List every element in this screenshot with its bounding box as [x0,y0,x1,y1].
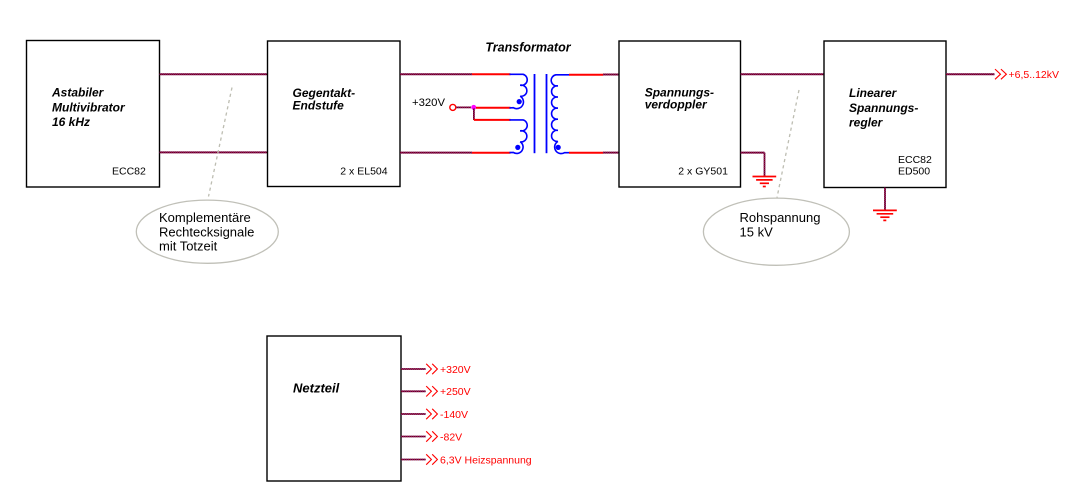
svg-text:Astabiler: Astabiler [51,86,105,100]
block U5: Netzteil [267,336,401,481]
wire: secondary top to verdoppler (dark) [603,74,619,76]
chevrons -140V [426,409,437,419]
svg-text:Komplementäre: Komplementäre [159,210,251,225]
svg-text:+320V: +320V [440,364,471,376]
chevrons -82V [426,431,437,441]
svg-text:Multivibrator: Multivibrator [52,101,126,115]
output arrow chevrons [995,69,1006,79]
svg-text:-140V: -140V [440,409,468,421]
wire: junction to bottom primary coil top (red) [474,119,511,121]
wire: netzteil output +320V [401,368,426,370]
svg-text:regler: regler [849,116,884,130]
ground symbol at verdoppler [753,177,777,187]
wire: junction to top primary coil bottom (red) [476,107,511,109]
wire: netzteil output -82V [401,436,426,438]
svg-text:2 x EL504: 2 x EL504 [340,166,387,178]
wire: endstufe to transformer primary top (dark) [400,73,472,75]
svg-text:ED500: ED500 [898,166,930,178]
transformer T1 primary winding upper (L1a) [510,74,528,108]
svg-text:6,3V Heizspannung: 6,3V Heizspannung [440,454,532,466]
wire: netzteil output +250V [401,390,426,392]
svg-text:16 kHz: 16 kHz [52,115,90,129]
wire: regler ground stem [884,188,886,211]
wire: verdoppler ground stub horizontal [741,152,765,154]
polarity dot L2 [556,145,561,150]
chevrons +320V [426,364,437,374]
svg-text:ECC82: ECC82 [112,166,146,178]
block U1: Astabiler Multivibrator 16 kHz [27,41,160,188]
block U3: Spannungsverdoppler [619,41,741,187]
svg-text:+320V: +320V [412,97,445,109]
terminal: +320V open circle [450,104,456,110]
svg-text:Rechtecksignale: Rechtecksignale [159,224,254,239]
wire: junction drop (dark) [473,108,475,120]
wire: endstufe to transformer primary bottom (dark) [400,152,472,154]
transformer T1 primary winding lower (L1b) [510,120,528,154]
ground symbol at regler [873,210,897,220]
block U2: Gegentakt-Endstufe [268,41,401,187]
svg-text:Transformator: Transformator [485,41,571,55]
chevrons 6,3V [426,454,437,464]
callout leader line 1 (dashed) [209,88,233,197]
svg-text:Netzteil: Netzteil [293,381,340,396]
svg-text:+6,5..12kV: +6,5..12kV [1009,69,1060,81]
wire: multivibrator to endstufe, upper [160,73,268,75]
wire: netzteil output -140V [401,413,426,415]
wire: netzteil output 6,3V [401,459,426,461]
wire: endstufe to transformer primary top (red) [472,73,511,75]
chevrons +250V [426,386,437,396]
callout ellipse: Rohspannung 15 kV [703,198,849,265]
callout ellipse: Komplementaere Rechtecksignale mit Totzeit [136,200,278,263]
wire: multivibrator to endstufe, lower [160,151,268,153]
svg-text:Endstufe: Endstufe [293,99,345,113]
block U4: Linearer Spannungsregler [824,41,946,188]
svg-text:ECC82: ECC82 [898,154,932,166]
wire: secondary bottom to verdoppler (red) [569,152,603,154]
callout leader line 2 (dashed) [777,90,799,198]
wire: regler output [946,73,995,75]
svg-text:Spannungs-: Spannungs- [849,101,918,115]
polarity dot L1b [515,145,520,150]
wire: verdoppler to regler upper [741,73,825,75]
transformer T1 secondary winding (L2) [551,75,569,154]
transformer T1 core [535,74,547,153]
svg-text:verdoppler: verdoppler [645,98,708,112]
svg-text:Linearer: Linearer [849,86,898,100]
wire: endstufe to transformer primary bottom (red) [472,152,511,154]
svg-text:-82V: -82V [440,431,462,443]
svg-text:15 kV: 15 kV [740,224,774,239]
wire: +320V terminal to junction (dark) [456,106,471,108]
svg-text:2 x GY501: 2 x GY501 [678,166,728,178]
wire: secondary top to verdoppler (red) [569,74,603,76]
svg-text:mit Totzeit: mit Totzeit [159,239,218,254]
node: center-tap junction dot [471,105,476,110]
wire: secondary bottom to verdoppler (dark) [603,152,619,154]
wire: verdoppler ground stub vertical [764,153,766,176]
svg-text:Rohspannung: Rohspannung [740,210,821,225]
svg-text:+250V: +250V [440,386,471,398]
polarity dot L1a [517,99,522,104]
